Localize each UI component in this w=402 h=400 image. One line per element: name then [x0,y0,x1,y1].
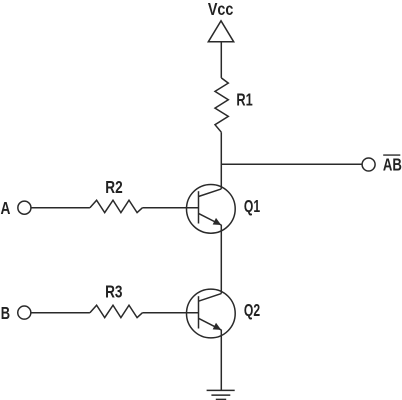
wire R3 to Q2 base [143,312,199,314]
Q1 base bar [198,191,200,223]
output terminal circle [362,158,375,171]
wire output node to terminal [221,163,362,165]
Vcc power triangle [208,21,233,42]
svg-text:Q1: Q1 [244,196,260,216]
wire B to R3 [31,312,90,314]
ground bar 3 [216,398,226,400]
resistor R3 [90,305,143,317]
Q2 envelope circle [187,289,236,338]
Q2 emitter arrowhead [213,323,222,330]
Q2 base bar [198,296,200,328]
svg-text:R2: R2 [105,177,122,197]
svg-text:R3: R3 [105,282,122,302]
Q1 envelope circle [187,185,236,234]
transistor Q1 [187,185,236,234]
ground bar 2 [211,394,230,396]
Q1 collector stroke [199,189,222,197]
Q1 emitter arrowhead [213,218,222,225]
resistor R1 [215,78,228,132]
Q2 collector stroke [199,294,222,302]
transistor Q2 [187,289,236,338]
wire Q2 emitter to ground [220,330,222,391]
ground [207,390,235,399]
wire R1 to Q1 collector (through output node) [220,132,222,189]
svg-text:AB: AB [383,155,402,175]
svg-text:B: B [1,303,10,323]
svg-text:Vcc: Vcc [208,0,234,19]
wire Q1 emitter to Q2 collector [220,225,222,294]
wire A to R2 [31,207,90,209]
svg-text:A: A [1,198,11,218]
terminal A circle [18,201,31,214]
wire Vcc triangle to R1 [220,42,222,78]
resistor R2 [90,200,143,212]
svg-text:Q2: Q2 [244,300,260,320]
svg-text:R1: R1 [236,89,253,109]
Q1 emitter stroke [199,213,222,225]
wire R2 to Q1 base [143,207,199,209]
ground bar 1 [207,389,235,391]
Q2 emitter stroke [199,318,222,330]
terminal B circle [18,306,31,319]
